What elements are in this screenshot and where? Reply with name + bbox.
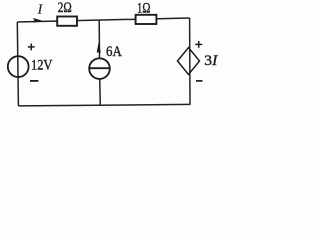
wire left (down through 12V source) <box>17 22 18 106</box>
wire middle upper (top node to current source) <box>98 20 100 59</box>
voltage source V1 12V (circle, lead passes through) <box>8 56 29 77</box>
svg-text:6A: 6A <box>106 44 122 60</box>
svg-text:3I: 3I <box>204 52 218 69</box>
plus sign of V1 <box>28 46 35 48</box>
plus sign of dependent source <box>195 43 202 45</box>
minus sign of V1 <box>30 80 38 82</box>
resistor R=2ohm (box) <box>57 17 77 26</box>
resistor R=1ohm (box) <box>136 15 157 24</box>
arrowhead of 6A source (pointing up) <box>97 42 101 53</box>
minus sign of dependent source <box>196 80 203 82</box>
wire top (node from V1 top to R2 top-right corner) <box>17 18 189 22</box>
svg-text:12V: 12V <box>31 58 53 74</box>
dependent voltage source 3I (diamond, lead passes through) <box>178 48 200 75</box>
wire right (down through controlled source) <box>189 18 191 105</box>
bar inside current source <box>90 67 110 69</box>
current source 6A (circle with bar) <box>89 58 110 79</box>
wire middle lower (current source to bottom node) <box>99 79 102 106</box>
current arrow I on top wire <box>33 18 42 23</box>
svg-text:1Ω: 1Ω <box>137 1 151 17</box>
svg-text:2Ω: 2Ω <box>58 0 72 16</box>
wire bottom <box>18 104 190 106</box>
